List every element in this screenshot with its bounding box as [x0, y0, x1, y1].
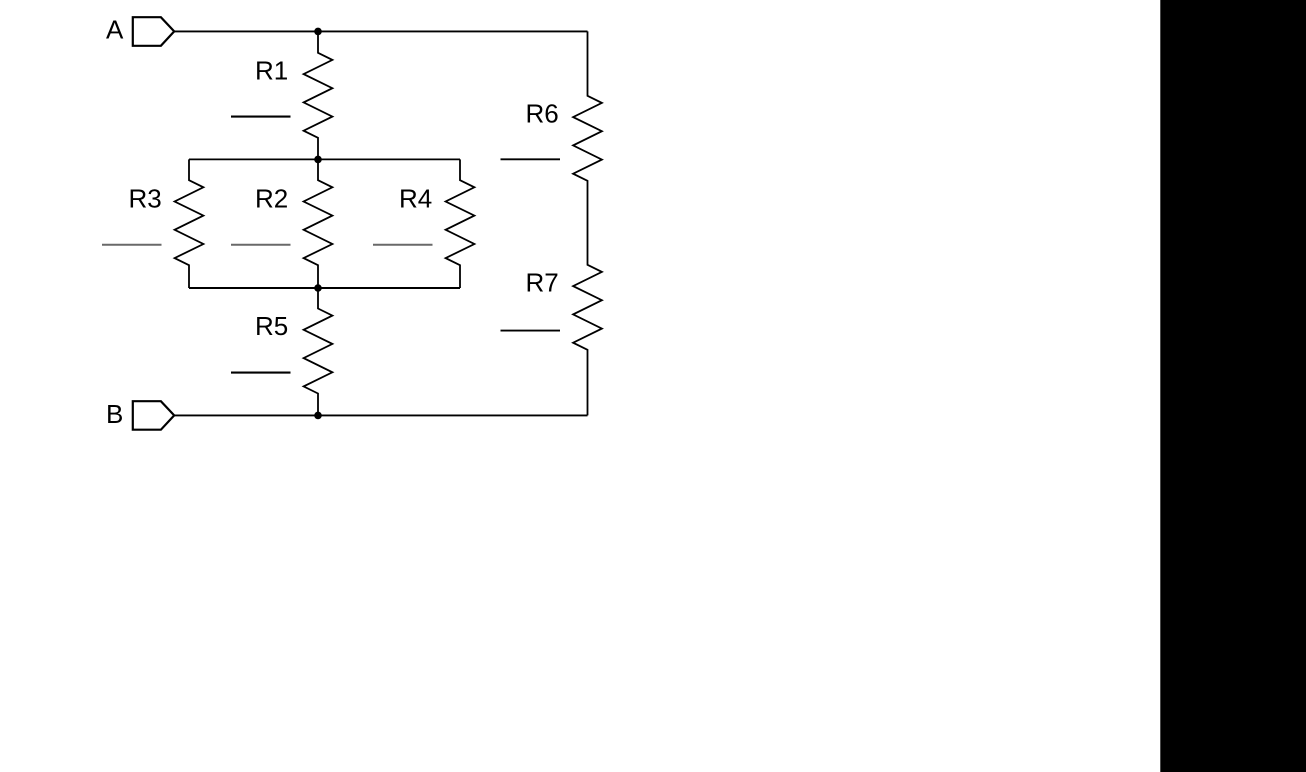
value line R1 — [231, 116, 291, 118]
svg-text:B: B — [106, 399, 123, 429]
wire: A to right branch (top rail) — [174, 30, 587, 32]
svg-text:R1: R1 — [255, 55, 288, 85]
wire: parallel group bottom rail — [189, 287, 460, 289]
wire: B to right branch (bottom rail) — [174, 414, 587, 416]
value line R2 — [231, 244, 291, 246]
value line R3 — [102, 244, 162, 246]
port flag A — [133, 17, 174, 46]
svg-text:R4: R4 — [399, 184, 432, 214]
resistor R4 — [446, 159, 475, 288]
value line R4 — [373, 244, 433, 246]
resistor R5 — [304, 288, 333, 415]
junction dot: top of parallel group — [314, 156, 322, 164]
svg-text:R3: R3 — [129, 184, 162, 214]
resistor R6 — [573, 31, 602, 222]
wire: parallel group top rail — [189, 158, 460, 160]
resistor R7 — [573, 222, 602, 415]
resistor R2 — [304, 159, 333, 288]
resistor R3 — [175, 159, 204, 288]
svg-text:R7: R7 — [526, 268, 559, 298]
value line R6 — [501, 158, 561, 160]
svg-text:R5: R5 — [255, 311, 288, 341]
svg-text:R2: R2 — [255, 184, 288, 214]
junction dot: bottom of parallel group — [314, 284, 322, 292]
junction dot: node B / R5 bottom — [314, 412, 322, 420]
junction dot: node A / R1 top — [314, 28, 322, 36]
svg-text:R6: R6 — [526, 98, 559, 128]
svg-text:A: A — [106, 15, 124, 45]
port flag B — [133, 401, 174, 430]
right sidebar black panel — [1160, 0, 1306, 772]
value line R5 — [231, 372, 291, 374]
value line R7 — [501, 330, 561, 332]
resistor R1 — [304, 31, 333, 159]
